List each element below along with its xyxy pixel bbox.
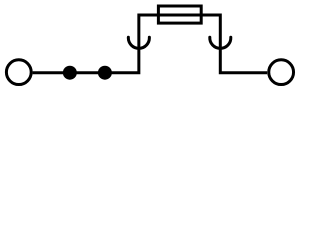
terminal circle left <box>6 60 31 85</box>
junction dot A <box>63 66 77 80</box>
terminal circle right <box>269 60 294 85</box>
fuse body rectangle <box>158 6 201 23</box>
fuse clip contact right <box>210 37 231 48</box>
junction dot B <box>98 66 112 80</box>
fuse clip contact left <box>128 37 149 48</box>
wire: conductor run from left terminal up over fuse holder and down to right terminal <box>33 15 268 73</box>
